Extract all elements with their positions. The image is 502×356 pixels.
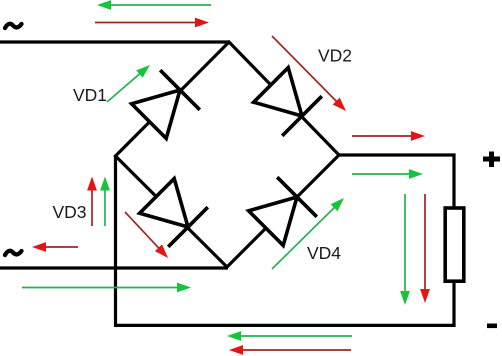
wire plus rail: right node to load top [339,155,454,208]
AC symbol bottom ~ [5,251,22,255]
red current arrow right of bridge (rightward) [352,131,425,141]
red current arrow top (rightward) [95,18,209,28]
green flow arrow through VD4 (NE) [272,198,344,269]
wire minus rail: left node down and along bottom to load [116,156,455,325]
plus terminal + [483,152,500,168]
red current arrow bottom AC (leftward) [32,242,78,252]
green current arrow through load (downward) [400,194,410,305]
red flow arrow through VD3 (SE) [125,212,168,258]
svg-text:VD4: VD4 [307,243,341,263]
svg-text:VD1: VD1 [73,85,107,105]
red flow arrow through VD2 (SE) [272,36,346,111]
red current arrow bottom rail (leftward) [229,345,351,355]
wire top AC input to bridge top node [0,40,229,43]
resistor load R [445,208,464,281]
minus terminal - [487,324,497,329]
diode VD3 [140,179,208,247]
red current arrow left node (upward) [87,177,97,227]
green current arrow left node (upward) [100,177,110,227]
diode VD4 [249,177,317,245]
red current arrow through load (downward) [420,194,430,303]
svg-text:VD3: VD3 [53,202,87,222]
wire bottom AC input to bridge bottom node [0,266,228,269]
svg-text:VD2: VD2 [318,46,352,66]
diode VD1 [132,70,200,138]
wire bridge diamond edges [116,42,340,267]
AC symbol top ~ [5,24,22,28]
diode VD2 [254,68,322,136]
green current arrow bottom AC (rightward) [22,283,191,293]
green current arrow bottom rail (leftward) [227,331,352,341]
green current arrow top (leftward) [97,0,211,10]
green current arrow right of bridge (rightward) [352,169,423,179]
green flow arrow through VD1 (NE) [107,65,150,102]
